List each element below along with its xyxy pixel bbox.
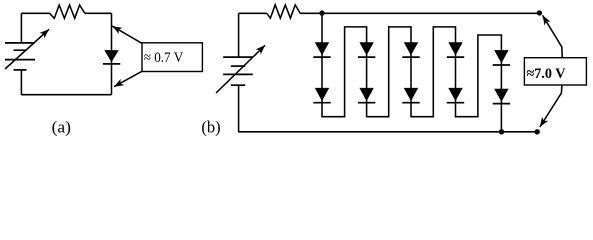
battery V1 (variable source, circuit a) [5,43,35,70]
svg-text:≈7.0 V: ≈7.0 V [527,66,566,82]
wire: serpentine diode string [322,13,501,132]
callout box: 7.0 V [524,58,586,85]
diode D5 (branch 2 lower) [358,88,375,103]
wire: circuit (b) top-left segment [239,12,267,14]
wire: circuit (a) left below battery [20,70,22,95]
wire: circuit (a) right side [111,13,113,94]
wire: circuit (a) left above battery [20,13,22,43]
wire: stub and arrow from box top to top node [543,15,563,57]
battery V2 variability arrow [216,45,265,93]
diode D9 (branch 4 lower) [447,88,464,103]
wire: circuit (b) top segment to right node [300,12,539,14]
callout box: 0.7 V [142,43,202,72]
diode D1 (circuit a) [103,50,120,64]
resistor R2 (circuit b, top) [267,5,301,18]
wire: circuit (b) left below battery [238,85,240,132]
battery V1 variability arrow [5,29,49,69]
wire: circuit (a) top-right segment [85,12,112,14]
svg-text:≈ 0.7 V: ≈ 0.7 V [144,50,184,66]
diode D11 (branch 5 lower) [493,89,510,104]
svg-text:(b): (b) [201,117,220,136]
node: bottom junction dot [499,129,504,134]
node: top-right measurement dot [537,10,542,15]
diode D10 (branch 5 upper) [493,50,510,65]
arrow: box to diode anode node [112,26,142,43]
resistor R1 (circuit a, top) [50,5,85,18]
wire: circuit (a) bottom [21,94,111,96]
diode D3 (branch 1 lower) [313,88,330,103]
diode D4 (branch 2 upper) [358,42,375,57]
svg-text:(a): (a) [52,117,71,136]
diode D8 (branch 4 upper) [447,42,464,57]
wire: stub and arrow from box bottom to bottom node [540,85,562,127]
wire: circuit (b) bottom [238,131,537,133]
diode D2 (branch 1 upper) [313,42,330,57]
node: bottom-right measurement dot [535,129,540,134]
wire: circuit (a) top-left segment [21,12,49,14]
node: top junction dot [319,10,324,15]
battery V2 (variable source, circuit b) [223,57,253,85]
arrow: box to diode cathode node [114,71,142,86]
diode D6 (branch 3 upper) [402,42,419,57]
wire: circuit (b) left above battery [238,13,240,57]
diode D7 (branch 3 lower) [402,88,419,103]
